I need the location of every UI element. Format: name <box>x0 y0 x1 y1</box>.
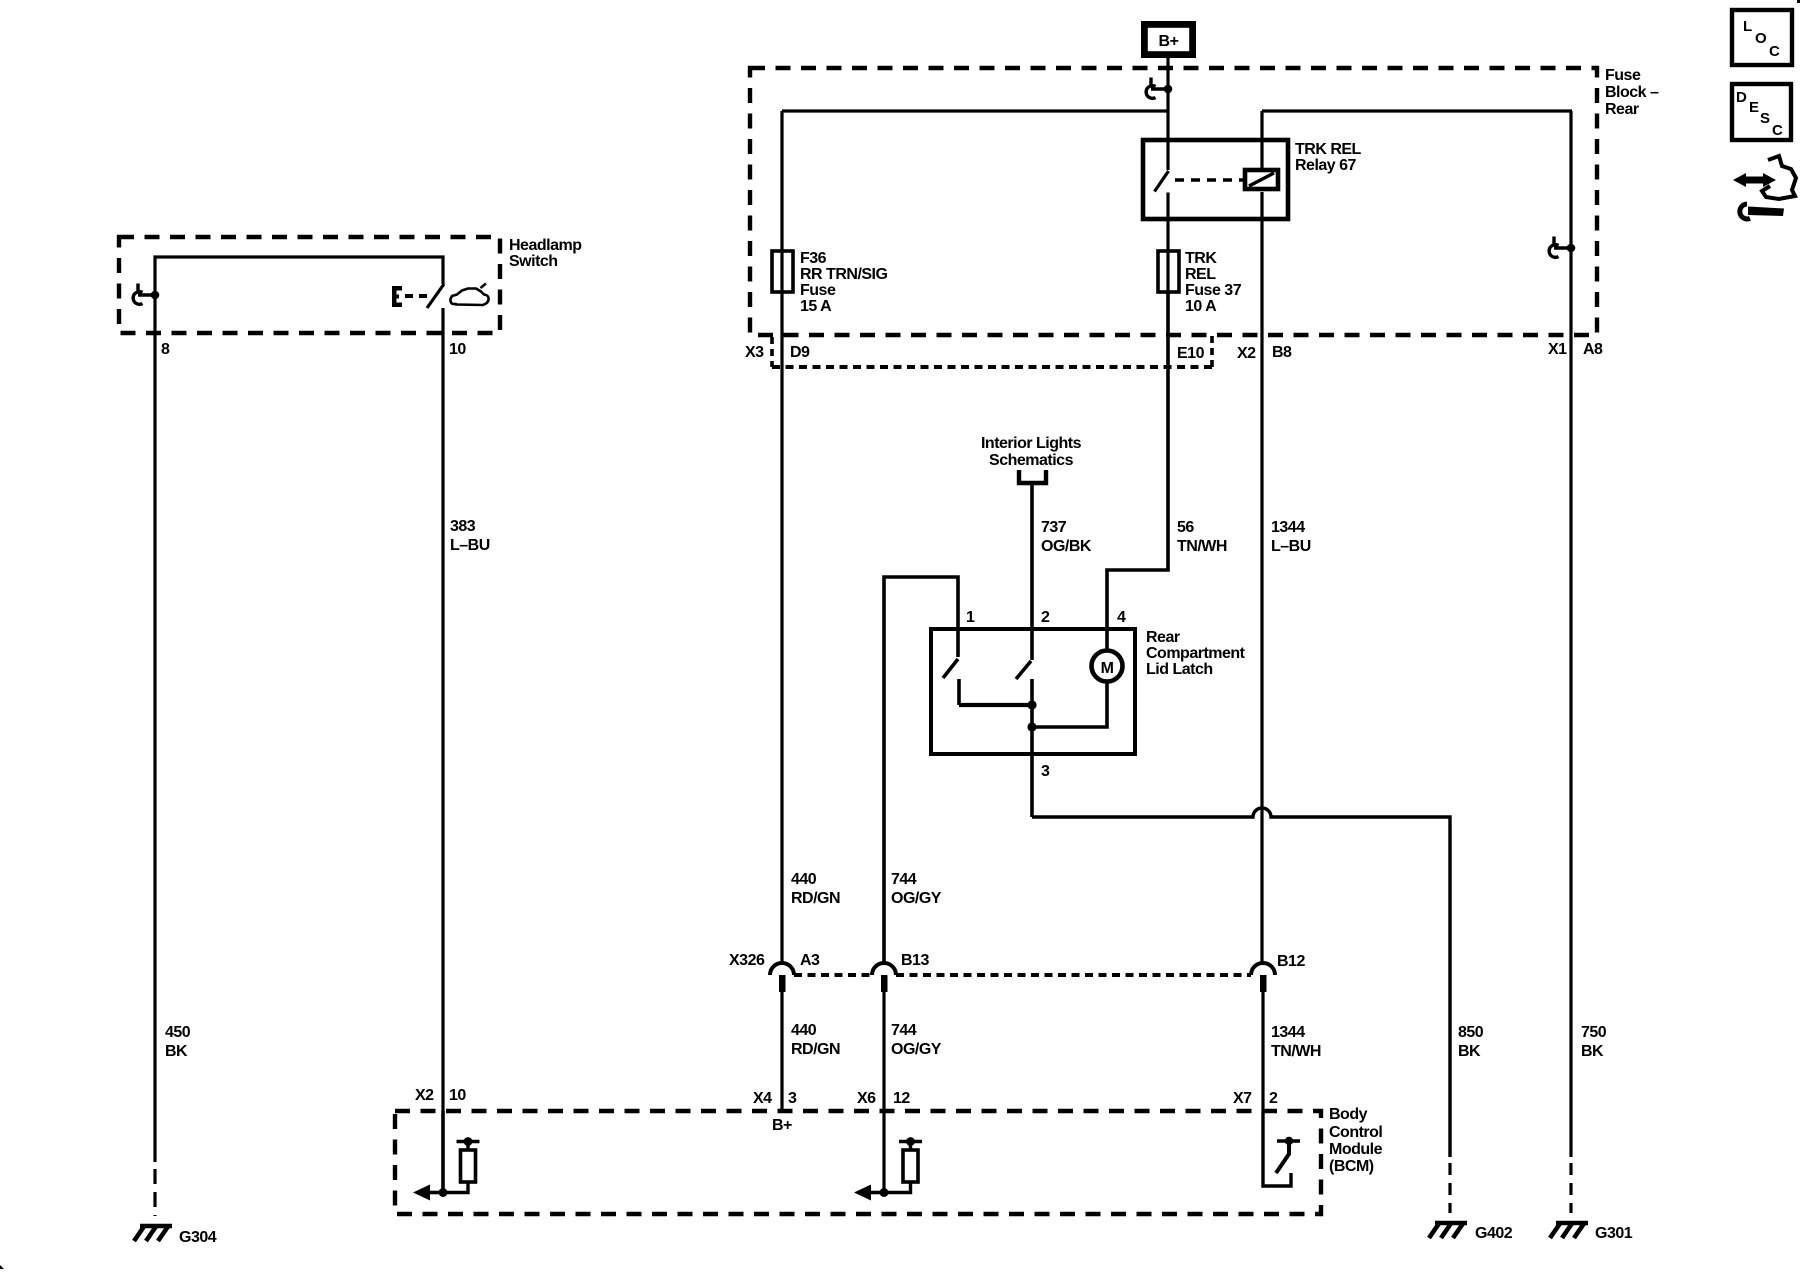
wire 850 BK with hop <box>1032 808 1450 1157</box>
svg-text:Lid Latch: Lid Latch <box>1146 661 1213 678</box>
svg-text:Headlamp: Headlamp <box>509 237 582 254</box>
svg-text:Compartment: Compartment <box>1146 645 1246 662</box>
svg-text:3: 3 <box>788 1090 797 1107</box>
latch center wire <box>1030 679 1034 817</box>
relay switch arm <box>1155 171 1169 192</box>
relay coil <box>1245 170 1278 189</box>
svg-text:383: 383 <box>450 518 476 535</box>
latch switch 1 link <box>959 703 1032 707</box>
wire 450 BK <box>153 295 156 1162</box>
motor M <box>1092 651 1123 682</box>
svg-text:3: 3 <box>1041 763 1050 780</box>
svg-text:L: L <box>1743 18 1752 35</box>
svg-text:4: 4 <box>1117 609 1126 626</box>
motor return wire <box>1032 682 1107 727</box>
svg-text:737: 737 <box>1041 519 1067 536</box>
svg-text:440: 440 <box>791 1022 817 1039</box>
svg-text:OG/BK: OG/BK <box>1041 538 1092 555</box>
svg-text:OG/GY: OG/GY <box>891 1041 942 1058</box>
headlamp switch mech link E glyph <box>392 286 402 307</box>
svg-text:10 A: 10 A <box>1185 298 1217 315</box>
junction dot <box>1027 700 1036 709</box>
svg-text:BK: BK <box>165 1043 188 1060</box>
diagnostic nav icon <box>1733 156 1796 219</box>
svg-text:X2: X2 <box>1237 345 1256 362</box>
fuse F36 wire <box>780 111 783 964</box>
ground G301 <box>1550 1222 1588 1238</box>
svg-text:RR TRN/SIG: RR TRN/SIG <box>800 266 888 283</box>
wire 383 L-BU <box>441 308 444 1111</box>
svg-text:OG/GY: OG/GY <box>891 890 942 907</box>
svg-text:Fuse 37: Fuse 37 <box>1185 282 1242 299</box>
connector bump B12 <box>1251 963 1275 975</box>
svg-text:8: 8 <box>161 341 170 358</box>
svg-text:BK: BK <box>1458 1043 1481 1060</box>
svg-text:G402: G402 <box>1475 1225 1513 1242</box>
fuse block box <box>750 68 1597 335</box>
svg-text:850: 850 <box>1458 1024 1484 1041</box>
headlamp switch box <box>119 237 500 333</box>
svg-text:S: S <box>1760 110 1770 127</box>
svg-text:A8: A8 <box>1583 341 1603 358</box>
ground G402 <box>1429 1222 1467 1238</box>
bus branch wire right <box>1262 109 1572 112</box>
svg-text:1344: 1344 <box>1271 519 1305 536</box>
wire B+ feed <box>1166 56 1169 170</box>
svg-text:REL: REL <box>1185 266 1216 283</box>
BCM pin 10 internals <box>413 1111 480 1201</box>
wire 737 OG/BK <box>1030 485 1034 660</box>
svg-text:B12: B12 <box>1277 953 1305 970</box>
svg-text:X4: X4 <box>753 1090 772 1107</box>
svg-text:10: 10 <box>449 341 466 358</box>
latch switch 1 lower contact <box>957 679 961 705</box>
svg-text:X6: X6 <box>857 1090 876 1107</box>
svg-text:TRK: TRK <box>1185 250 1217 267</box>
pull-up resistor <box>884 1183 911 1193</box>
headlamp switch internal wire <box>155 257 443 295</box>
svg-text:2: 2 <box>1269 1090 1278 1107</box>
svg-text:Control: Control <box>1329 1124 1382 1141</box>
svg-text:B13: B13 <box>901 952 929 969</box>
headlamp switch terminal clip <box>133 284 159 305</box>
arrow <box>869 1191 884 1195</box>
junction dot <box>1027 722 1036 731</box>
svg-text:C: C <box>1769 43 1780 60</box>
svg-text:Fuse: Fuse <box>800 282 836 299</box>
svg-text:A3: A3 <box>800 952 820 969</box>
bus branch wire left <box>782 109 1168 112</box>
svg-text:B+: B+ <box>1159 33 1179 50</box>
svg-text:2: 2 <box>1041 609 1050 626</box>
svg-text:M: M <box>1101 660 1114 677</box>
svg-text:Block –: Block – <box>1605 84 1659 101</box>
wire 440 lower <box>780 992 783 1111</box>
svg-text:X3: X3 <box>745 344 764 361</box>
pull-up resistor <box>443 1183 468 1193</box>
svg-text:750: 750 <box>1581 1024 1607 1041</box>
wire 750 top segment <box>1569 111 1572 1157</box>
svg-text:Body: Body <box>1329 1106 1368 1123</box>
wire into pin 10 <box>441 1111 445 1193</box>
connector bump A3 <box>770 963 794 975</box>
car icon <box>450 284 488 306</box>
svg-text:D9: D9 <box>790 344 810 361</box>
wire 744 lower <box>882 992 885 1193</box>
relay coil wire bottom / wire 1344 upper <box>1260 192 1263 964</box>
svg-text:B8: B8 <box>1272 344 1292 361</box>
fuse block connector dotted box <box>770 337 774 367</box>
relay coil wire top <box>1260 111 1263 170</box>
arrow <box>428 1191 443 1195</box>
svg-text:1344: 1344 <box>1271 1024 1305 1041</box>
svg-text:Schematics: Schematics <box>989 452 1074 469</box>
svg-text:Interior Lights: Interior Lights <box>981 435 1082 452</box>
svg-text:450: 450 <box>165 1024 191 1041</box>
svg-text:10: 10 <box>449 1087 466 1104</box>
svg-text:1: 1 <box>966 609 975 626</box>
BCM box <box>395 1111 1321 1214</box>
svg-text:X2: X2 <box>415 1087 434 1104</box>
svg-text:56: 56 <box>1177 519 1194 536</box>
svg-text:O: O <box>1755 30 1767 47</box>
svg-text:G301: G301 <box>1595 1225 1633 1242</box>
connector bump B13 <box>872 963 896 975</box>
svg-text:TRK REL: TRK REL <box>1295 141 1362 158</box>
svg-text:RD/GN: RD/GN <box>791 890 840 907</box>
svg-text:L–BU: L–BU <box>1271 538 1311 555</box>
BCM pin 2 switch <box>1263 1111 1300 1186</box>
svg-text:TN/WH: TN/WH <box>1177 538 1227 555</box>
wire 744 jog to pin 1 <box>884 577 958 964</box>
fuse F36 <box>772 251 793 292</box>
svg-text:12: 12 <box>893 1090 910 1107</box>
svg-text:X326: X326 <box>729 952 765 969</box>
svg-text:E10: E10 <box>1177 345 1205 362</box>
svg-text:440: 440 <box>791 871 817 888</box>
svg-text:G304: G304 <box>179 1229 217 1246</box>
svg-text:F36: F36 <box>800 250 827 267</box>
svg-text:BK: BK <box>1581 1043 1604 1060</box>
svg-text:C: C <box>1772 122 1783 139</box>
svg-text:E: E <box>1749 99 1759 116</box>
svg-text:X1: X1 <box>1548 341 1567 358</box>
svg-text:Module: Module <box>1329 1141 1383 1158</box>
svg-text:TN/WH: TN/WH <box>1271 1043 1321 1060</box>
svg-text:X7: X7 <box>1233 1090 1252 1107</box>
svg-text:744: 744 <box>891 1022 917 1039</box>
X326 dotted line <box>794 973 1251 977</box>
svg-text:Rear: Rear <box>1605 101 1639 118</box>
wire 56 TN/WH <box>1107 292 1168 650</box>
svg-text:744: 744 <box>891 871 917 888</box>
wire 750 BK lower <box>1569 1163 1572 1213</box>
fuse TRK REL <box>1158 251 1179 292</box>
latch switch 2 arm <box>1016 661 1031 679</box>
svg-text:D: D <box>1736 89 1747 106</box>
svg-text:Relay 67: Relay 67 <box>1295 157 1357 174</box>
off-page bracket <box>1019 470 1046 483</box>
LOC box <box>1732 10 1792 65</box>
svg-text:15 A: 15 A <box>800 298 832 315</box>
latch box <box>931 629 1135 754</box>
relay switch lower contact <box>1166 193 1169 293</box>
svg-text:(BCM): (BCM) <box>1329 1158 1374 1175</box>
wire 1344 lower <box>1261 992 1264 1111</box>
B+ power box <box>1144 24 1192 54</box>
svg-text:B+: B+ <box>772 1117 792 1134</box>
headlamp switch mech link dashes <box>405 294 427 298</box>
svg-text:RD/GN: RD/GN <box>791 1041 840 1058</box>
ground G304 <box>134 1225 172 1241</box>
svg-text:Switch: Switch <box>509 253 558 270</box>
latch switch 1 arm <box>943 659 958 678</box>
svg-text:L–BU: L–BU <box>450 537 490 554</box>
DESC box <box>1732 84 1791 140</box>
page mark bottom-left <box>0 1265 4 1269</box>
relay link dashes <box>1175 178 1243 181</box>
relay box <box>1143 140 1288 219</box>
svg-text:Rear: Rear <box>1146 629 1180 646</box>
clip on A8 wire <box>1549 237 1575 258</box>
headlamp switch arm <box>427 284 444 308</box>
clip at B+ feed <box>1146 78 1172 99</box>
page mark top-right <box>1797 0 1800 3</box>
BCM pin 12 internals <box>854 1137 922 1200</box>
svg-text:Fuse: Fuse <box>1605 67 1641 84</box>
